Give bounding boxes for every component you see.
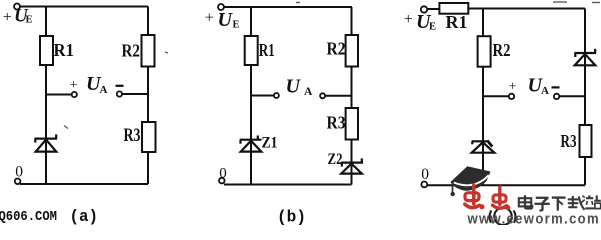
svg-text:E: E — [233, 20, 240, 31]
svg-text:0: 0 — [219, 165, 227, 181]
svg-text:R1: R1 — [54, 40, 75, 60]
svg-text:(a): (a) — [70, 207, 99, 225]
svg-text:R1: R1 — [446, 12, 468, 32]
svg-text:R3: R3 — [327, 113, 346, 133]
svg-text:+: + — [70, 78, 78, 93]
svg-text:+: + — [205, 9, 214, 26]
svg-text:R3: R3 — [124, 125, 141, 146]
svg-text:R2: R2 — [493, 40, 511, 60]
svg-text:E: E — [429, 22, 436, 33]
svg-text:+: + — [404, 11, 413, 28]
svg-text:R2: R2 — [327, 39, 346, 59]
svg-text:U: U — [286, 76, 302, 98]
svg-text:A: A — [100, 84, 108, 96]
svg-text:A: A — [304, 86, 313, 98]
svg-text:A: A — [541, 85, 549, 97]
svg-text:Z1: Z1 — [262, 135, 278, 152]
svg-text:Z2: Z2 — [328, 151, 343, 168]
svg-text:U: U — [218, 9, 234, 31]
svg-text:0: 0 — [15, 164, 23, 181]
svg-text:www.eeworm.com: www.eeworm.com — [467, 212, 600, 225]
svg-text:R3: R3 — [561, 131, 577, 151]
svg-text:+: + — [3, 9, 12, 26]
svg-text:Q606.COM: Q606.COM — [0, 210, 57, 225]
svg-text:E: E — [26, 15, 33, 26]
svg-text:R1: R1 — [259, 40, 275, 60]
svg-text:(b): (b) — [277, 208, 306, 226]
svg-text:+: + — [509, 80, 517, 95]
svg-text:R2: R2 — [122, 41, 141, 61]
svg-text:0: 0 — [421, 166, 429, 183]
